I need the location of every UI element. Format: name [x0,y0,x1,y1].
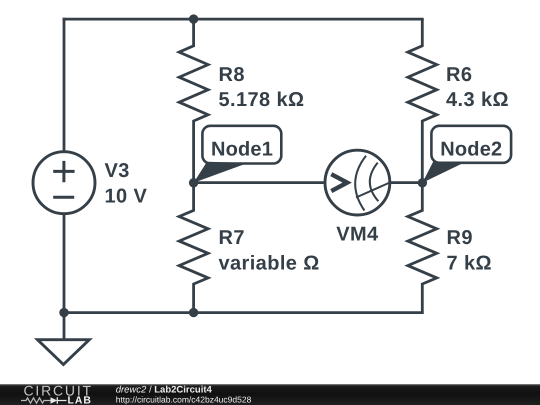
svg-text:http://circuitlab.com/c42bz4uc: http://circuitlab.com/c42bz4uc9d528 [116,395,252,405]
wire voltmeter to node2 [390,181,423,184]
label VM4 [336,224,379,246]
junction bottom middle dot [189,308,198,317]
label R7 value [219,227,320,274]
svg-text:10 V: 10 V [105,185,148,207]
resistor R9 [408,183,437,313]
svg-text:V3: V3 [105,160,130,182]
footer logo LAB [68,396,92,405]
svg-text:R6: R6 [446,64,472,86]
wire left upper (top net to V3) [63,18,66,152]
wire left lower (V3 to bottom net) [63,214,66,313]
ground [38,313,90,365]
junction bottom left dot [59,308,68,317]
label R9 value [447,227,492,274]
footer logo CIRCUIT [24,382,93,398]
svg-text:VM4: VM4 [336,224,379,246]
resistor R6 [408,19,437,183]
footer title text [116,385,252,405]
wire top net [63,18,424,21]
svg-text:LAB: LAB [68,396,92,405]
node junction Node2 dot [418,178,427,187]
svg-text:R8: R8 [219,64,245,86]
voltmeter VM4 [325,150,391,215]
wire bottom net [63,311,424,314]
svg-text:Node2: Node2 [440,138,502,160]
label V3 value [105,160,148,207]
resistor R8 [179,19,208,183]
node flag Node2 [422,126,511,183]
svg-text:5.178 kΩ: 5.178 kΩ [219,89,305,111]
node flag Node1 [194,126,282,183]
voltage source V3 [33,152,95,214]
svg-text:R9: R9 [447,227,473,249]
svg-text:variable Ω: variable Ω [219,252,320,274]
label R8 value [219,64,305,111]
footer bar [0,384,540,405]
wire node1 to voltmeter [194,181,326,184]
junction top net dot [189,14,198,23]
label R6 value [446,64,509,111]
resistor R7 [179,183,208,313]
svg-text:R7: R7 [219,227,245,249]
svg-text:Node1: Node1 [211,139,273,161]
node junction Node1 dot [189,178,198,187]
svg-text:7 kΩ: 7 kΩ [447,252,492,274]
svg-text:4.3 kΩ: 4.3 kΩ [446,89,509,111]
footer logo resistor-diode squiggle [21,397,67,403]
